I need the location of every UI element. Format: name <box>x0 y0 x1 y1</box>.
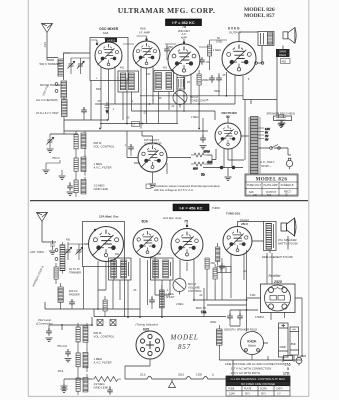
top section bus C <box>132 111 216 120</box>
cap C12 with ground <box>67 182 74 195</box>
antenna coil L1 <box>47 53 70 80</box>
svg-text:OUTPUT: OUTPUT <box>229 31 242 35</box>
bottom bus y360 <box>240 356 302 360</box>
diode load box <box>177 78 185 90</box>
bias label <box>196 307 206 310</box>
osc padder chain 857 <box>54 263 81 284</box>
svg-text:1305: 1305 <box>196 373 202 377</box>
svg-text:BIAS .05: BIAS .05 <box>196 307 206 310</box>
approx loop diagonal label <box>31 265 44 287</box>
cap C31 ground <box>107 386 113 395</box>
line voltage note L1 <box>225 362 291 366</box>
model 857 script <box>170 334 199 352</box>
model 826 table <box>245 174 298 197</box>
wire avc <box>50 131 78 134</box>
svg-text:40 TU 50: 40 TU 50 <box>69 267 80 271</box>
svg-text:2525: 2525 <box>273 280 282 284</box>
bottom bus C <box>98 290 247 305</box>
svg-text:.05: .05 <box>205 99 209 102</box>
svg-text:VOL. CONTROL: VOL. CONTROL <box>94 335 115 339</box>
shield box stubs top <box>91 81 127 124</box>
top section vertical wires T1 <box>123 92 132 120</box>
svg-text:TUNG-SOL: TUNG-SOL <box>226 212 241 216</box>
misc top labels <box>96 73 190 91</box>
cap above pot 857 <box>149 296 155 309</box>
svg-text:Rectifier: Rectifier <box>269 274 282 278</box>
svg-text:.02: .02 <box>199 294 203 297</box>
svg-text:.05: .05 <box>158 97 162 100</box>
transformer taps <box>258 128 270 142</box>
svg-text:12A8: 12A8 <box>229 393 235 396</box>
tube V4 6V6G output <box>222 42 256 76</box>
cap C30 ground <box>65 349 72 362</box>
candohm box <box>217 267 231 273</box>
svg-text:.1: .1 <box>124 144 127 147</box>
resistor R21 <box>213 264 217 285</box>
svg-text:.02: .02 <box>206 60 210 64</box>
smoothing label <box>224 328 257 332</box>
resistor chain R11 label <box>94 162 112 170</box>
svg-text:75: 75 <box>184 220 188 224</box>
resistor R5 <box>197 70 209 90</box>
speaker 857 label <box>262 238 298 259</box>
bias resistor V10 <box>216 243 220 266</box>
volume control R10 <box>74 131 86 157</box>
svg-text:OSC·MIXER: OSC·MIXER <box>99 27 119 31</box>
tone control potentiometer <box>173 89 187 108</box>
resistor 6700 <box>191 150 210 158</box>
tuning gang capacitor C2 <box>71 58 90 74</box>
svg-text:6700: 6700 <box>204 150 211 154</box>
svg-text:5: 5 <box>287 367 289 371</box>
svg-text:Δ: Δ <box>212 373 214 377</box>
pilot bus cap <box>69 299 75 309</box>
wire x204 <box>201 288 206 317</box>
svg-text:8MF: 8MF <box>291 342 297 346</box>
svg-text:2 MEG: 2 MEG <box>191 116 199 119</box>
svg-text:SCREEN·B: SCREEN·B <box>281 184 294 187</box>
chain R32 label <box>94 382 109 390</box>
svg-text:456: 456 <box>66 239 71 242</box>
cap C9 <box>216 73 222 96</box>
svg-text:.1: .1 <box>166 289 169 292</box>
IF transformer T2 <box>154 71 174 92</box>
bottom right wires <box>219 310 294 362</box>
padder label <box>40 83 62 87</box>
tube V4 label <box>228 27 242 35</box>
badge right note <box>212 206 220 210</box>
resistor R4 <box>208 40 222 62</box>
ground G3 <box>59 170 66 179</box>
svg-text:SMOOTH. SPEAKER FIELD: SMOOTH. SPEAKER FIELD <box>224 328 257 332</box>
bottom socket stub <box>125 359 150 379</box>
ground G11 <box>61 379 68 389</box>
tube V1 label <box>99 27 119 35</box>
top section bus A <box>140 95 243 97</box>
wire socket feeds <box>267 253 272 284</box>
volume control 857 chain R30 <box>76 323 88 350</box>
svg-text:ANT.: ANT. <box>43 42 47 48</box>
svg-text:500 K TRIMMER: 500 K TRIMMER <box>40 62 61 66</box>
svg-text:750 Ω: 750 Ω <box>52 156 60 160</box>
svg-text:8: 8 <box>248 78 250 81</box>
chain R31 label <box>94 357 112 365</box>
svg-text:Ballast: Ballast <box>248 344 256 348</box>
svg-text:600: 600 <box>193 167 198 171</box>
rectifier label <box>226 115 230 119</box>
svg-text:50M: 50M <box>96 88 101 91</box>
volume control 857 <box>173 279 186 295</box>
top section bus B <box>95 103 235 105</box>
sheet left border <box>27 0 29 396</box>
svg-text:5: 5 <box>117 78 119 80</box>
output transformer T3 <box>258 32 274 46</box>
tube V7 label <box>99 215 119 219</box>
cap C33 <box>227 310 233 326</box>
svg-text:APPROX LOOP Δ: APPROX LOOP Δ <box>31 265 44 287</box>
bottom bus D <box>49 317 92 330</box>
antenna trimmer label <box>40 62 61 66</box>
tube V8 6D6 <box>133 229 162 258</box>
svg-text:MODEL 857: MODEL 857 <box>244 13 275 19</box>
value label c13 <box>131 97 162 115</box>
svg-text:I·F = 456 KC: I·F = 456 KC <box>179 205 202 210</box>
trimmer screw B <box>110 320 116 326</box>
wires tube V4 to transformer <box>239 32 283 100</box>
tuning indicator label <box>136 323 159 332</box>
antenna coil 857 <box>55 242 65 274</box>
bottom table header band1 <box>226 376 290 381</box>
tube V9 75 <box>171 229 203 261</box>
resistor chain R11 <box>74 155 86 177</box>
wire rectifier feed <box>244 100 246 161</box>
power transformer T4 <box>249 117 260 174</box>
svg-text:.05: .05 <box>222 74 226 77</box>
value labels 857 coils <box>66 239 162 257</box>
ground speaker field <box>279 123 286 126</box>
svg-text:450: 450 <box>282 59 287 63</box>
tuning indicator socket 6U5 <box>136 331 164 359</box>
svg-text:600 KC PADDER: 600 KC PADDER <box>40 83 62 87</box>
bumps line resistor <box>92 377 121 382</box>
inter tube caps top <box>164 44 170 60</box>
svg-text:4.5MFD: 4.5MFD <box>255 316 264 319</box>
volume control label <box>94 141 115 149</box>
wires rectifier socket <box>247 298 303 356</box>
svg-text:SHUNT: SHUNT <box>166 296 175 299</box>
tube V3 label <box>178 25 190 39</box>
label resistor small2 <box>57 369 64 373</box>
pilot lamp label <box>35 318 53 326</box>
resistor R20 <box>205 258 215 269</box>
cap C6 <box>209 75 215 83</box>
top section vertical wires V1 <box>101 66 115 129</box>
svg-text:WATTS 570-206: WATTS 570-206 <box>278 241 298 245</box>
coil badge LA816 <box>105 38 117 43</box>
IF frequency badge model 857 <box>173 204 209 211</box>
svg-text:ALL DC READINGS. CONTROLS AT M: ALL DC READINGS. CONTROLS AT MAX. <box>230 377 286 381</box>
wire V5 left <box>127 131 153 158</box>
svg-text:7.5Δ: 7.5Δ <box>201 311 206 314</box>
svg-text:20MF: 20MF <box>280 345 287 349</box>
svg-text:.05: .05 <box>97 100 101 103</box>
svg-text:GRID LEAK: GRID LEAK <box>94 187 109 191</box>
bus cap extra <box>81 107 87 120</box>
pin labels V1 <box>96 39 119 81</box>
bottom vertical wires V9 <box>155 259 194 317</box>
heater note 1 <box>36 98 58 102</box>
svg-text:.1: .1 <box>112 108 115 111</box>
svg-text:250: 250 <box>211 261 216 265</box>
tube V10 43 output <box>223 227 252 256</box>
svg-text:HV: HV <box>265 139 269 142</box>
tube V10 label <box>226 212 249 226</box>
svg-text:17Δ: 17Δ <box>285 362 292 366</box>
top section bus E <box>64 120 208 131</box>
svg-text:2nd Det. Amp.: 2nd Det. Amp. <box>162 216 182 220</box>
note text model 826 <box>146 184 220 192</box>
electrolytic cap E1 <box>279 323 289 357</box>
top section vertical wires V3 <box>159 74 192 124</box>
tube V3 75 2nd det <box>168 44 200 76</box>
ac plug P1 <box>286 148 292 169</box>
svg-text:MODEL: MODEL <box>170 334 199 342</box>
svg-text:A.V.C. FILTER: A.V.C. FILTER <box>94 361 112 365</box>
line voltage note L2 <box>229 367 289 371</box>
grid cap V2 <box>137 36 148 41</box>
coupling wires tube tops <box>123 40 227 47</box>
label 750 <box>52 156 60 160</box>
svg-text:95 V: 95 V <box>261 393 266 396</box>
svg-text:K42K: K42K <box>247 340 257 344</box>
grid cap V3 <box>183 39 185 44</box>
svg-text:.1: .1 <box>140 49 143 52</box>
tube V9 label <box>162 216 188 224</box>
chain R31 <box>76 348 88 373</box>
resistor R33 vertical winding <box>210 320 222 351</box>
wire socket bottom text <box>255 316 264 319</box>
avc cap with ground <box>47 134 54 152</box>
speaker model 857 <box>281 218 296 236</box>
svg-text:3 V: 3 V <box>277 393 281 396</box>
svg-text:.05 Δ: .05 Δ <box>57 369 64 373</box>
rectifier tube V6 25 <box>215 123 241 149</box>
tube V2 6D6 if amp <box>133 41 160 68</box>
wire rectifier <box>228 116 249 160</box>
bottom table grid <box>226 376 290 396</box>
svg-text:17Ω: 17Ω <box>283 371 290 375</box>
svg-text:7Ω: 7Ω <box>201 173 206 177</box>
antenna 857 labels <box>30 240 56 254</box>
svg-text:.02: .02 <box>171 105 175 108</box>
rectifier label badge <box>222 111 238 115</box>
ground G2 <box>43 160 61 173</box>
ground G10 <box>61 384 68 392</box>
svg-text:SPEAKER FIELD 450Ω: SPEAKER FIELD 450Ω <box>267 112 295 116</box>
line fuse box <box>284 356 307 366</box>
volume control 857 label <box>188 282 202 293</box>
value labels bottom mid <box>133 289 203 306</box>
wires V10 to transformer <box>238 222 289 254</box>
svg-text:PLATE: PLATE <box>244 388 252 391</box>
small part label box <box>132 122 140 127</box>
svg-text:LINE VOLTAGE 105 AC AND CONNEC: LINE VOLTAGE 105 AC AND CONNECTIONS <box>225 362 285 366</box>
oscillator coil L3 <box>62 97 68 121</box>
svg-text:1 MEG: 1 MEG <box>213 48 221 52</box>
svg-text:TUBE·VOLT: TUBE·VOLT <box>247 184 261 187</box>
svg-text:25L6: 25L6 <box>240 222 248 226</box>
title ULTRAMAR MFG. CORP. <box>118 6 216 15</box>
svg-text:.1: .1 <box>131 100 134 103</box>
svg-text:600 KC: 600 KC <box>69 289 78 293</box>
value label top mid <box>120 46 173 70</box>
svg-text:L4 816: L4 816 <box>107 38 116 42</box>
model number heading <box>244 7 275 19</box>
speaker field resistor <box>274 100 292 123</box>
svg-text:TUBE: TUBE <box>228 388 235 391</box>
svg-text:ALL 6.3 HEATERS: ALL 6.3 HEATERS <box>36 98 58 102</box>
oscillator coil L2 <box>55 81 66 98</box>
svg-text:456: 456 <box>115 253 120 256</box>
svg-text:MODEL 826: MODEL 826 <box>256 177 288 182</box>
shield box tube V7 <box>83 222 125 267</box>
svg-text:TRIMMER: TRIMMER <box>69 270 81 274</box>
resistor chain R12 <box>74 177 86 197</box>
svg-text:ULTRAMAR MFG. CORP.: ULTRAMAR MFG. CORP. <box>118 6 216 15</box>
svg-text:.05: .05 <box>126 117 130 120</box>
bottom vertical wires V8 <box>113 257 155 317</box>
IF transformer T6 <box>151 258 174 280</box>
svg-text:CONTROL: CONTROL <box>188 289 202 293</box>
speaker field label <box>267 112 295 116</box>
svg-text:3: 3 <box>96 78 98 80</box>
svg-text:VOL. CONTROL: VOL. CONTROL <box>94 145 115 149</box>
svg-text:AMP.: AMP. <box>181 35 188 39</box>
grid cap V9 <box>186 223 188 227</box>
IF frequency badge model 826 <box>166 19 202 26</box>
svg-text:2D: 2D <box>187 81 190 84</box>
svg-text:.1: .1 <box>152 99 155 102</box>
cap V5 left <box>124 144 134 156</box>
tuning cap 857 b <box>68 244 88 260</box>
svg-text:GRID LEAK: GRID LEAK <box>94 386 109 390</box>
svg-text:50: 50 <box>217 36 220 40</box>
tube V2 label <box>139 27 150 35</box>
bottom bus A <box>45 302 140 309</box>
output transformer T7 <box>264 222 277 251</box>
svg-text:1ST: 1ST <box>146 73 151 76</box>
antenna model 826 <box>42 24 53 58</box>
svg-text:(Tuning Indicator): (Tuning Indicator) <box>136 323 159 327</box>
rectifier socket label <box>269 274 282 284</box>
pilot bus resistor <box>103 296 107 317</box>
speaker field badge <box>276 49 290 64</box>
section divider line <box>30 200 308 202</box>
resistor above 6U5 <box>160 285 176 317</box>
svg-text:8 MF: 8 MF <box>250 294 256 297</box>
tube V5 label <box>144 138 161 146</box>
svg-text:L7: L7 <box>133 123 136 127</box>
line voltage note L3 <box>229 371 290 375</box>
svg-text:360Ω: 360Ω <box>210 320 216 324</box>
ac only label <box>259 160 276 168</box>
svg-text:2 MEG: 2 MEG <box>176 303 184 306</box>
tube V8 label <box>142 220 148 224</box>
svg-text:TONE CON.: TONE CON. <box>190 99 206 103</box>
svg-text:FIELD: FIELD <box>279 54 286 57</box>
junction dots extra <box>61 123 303 357</box>
IF transformer T1 <box>118 71 139 92</box>
svg-text:.02: .02 <box>143 112 147 115</box>
wire x203 with cap and ground <box>200 118 207 149</box>
rectifier bus stubs <box>224 149 232 168</box>
svg-text:857: 857 <box>178 343 191 351</box>
svg-text:NO FIXED LINE VOLTAGE: NO FIXED LINE VOLTAGE <box>241 382 275 386</box>
svg-text:25L6: 25L6 <box>178 373 184 377</box>
svg-text:· 220 V AC WITH BOTH: · 220 V AC WITH BOTH <box>229 371 260 375</box>
svg-text:PADDER: PADDER <box>69 292 80 296</box>
svg-text:750 Ω Δ: 750 Ω Δ <box>57 344 67 348</box>
speaker field bus <box>243 100 277 105</box>
svg-text:12A Mod. Osc: 12A Mod. Osc <box>99 215 119 219</box>
chain R32 <box>76 373 88 395</box>
svg-text:350Ω: 350Ω <box>214 90 220 93</box>
coupling cap C5 <box>199 57 209 65</box>
bus value labels <box>97 99 209 120</box>
IF transformer T5 <box>109 258 132 280</box>
resistor chain R12 label <box>94 184 109 192</box>
tuning gang capacitor C1 <box>68 58 75 74</box>
junction dots top <box>107 95 228 125</box>
shield box tube V1 <box>90 38 128 81</box>
svg-text:25 Δ: 25 Δ <box>140 373 146 377</box>
sheet right border <box>308 0 310 396</box>
svg-text:240: 240 <box>253 194 258 197</box>
svg-text:50-60 ~: 50-60 ~ <box>261 164 272 168</box>
svg-text:95 V: 95 V <box>245 393 250 396</box>
svg-text:THIRD: THIRD <box>212 206 220 210</box>
dial lamp triangle <box>169 379 176 388</box>
wire V5 right <box>167 149 216 164</box>
bottom bus B <box>94 309 226 317</box>
svg-text:462: 462 <box>120 67 125 70</box>
svg-text:ANT. TRIM.: ANT. TRIM. <box>30 250 45 254</box>
grid cap V7 <box>94 229 96 231</box>
grid cap V1 <box>91 40 98 45</box>
svg-text:462: 462 <box>163 67 168 70</box>
bottom table header band2 <box>226 381 290 386</box>
svg-text:6A8: 6A8 <box>103 31 109 35</box>
chain R30 label <box>94 331 115 339</box>
ground V5 <box>149 172 156 187</box>
svg-text:PLATE·AMP: PLATE·AMP <box>264 184 278 187</box>
junction dots bottom <box>97 299 247 318</box>
svg-text:I.F. AMP: I.F. AMP <box>139 31 150 35</box>
wire antenna bus <box>47 53 90 60</box>
rectifier output bus <box>203 166 243 180</box>
ballast K42K <box>241 332 264 355</box>
svg-text:AT ALL 6.3 V. TEST: AT ALL 6.3 V. TEST <box>36 111 59 115</box>
svg-text:· 117 V AC WITH CONNECTION: · 117 V AC WITH CONNECTION <box>229 367 271 371</box>
antenna label <box>43 42 47 48</box>
value labels bottom v10 <box>243 270 256 297</box>
svg-text:456: 456 <box>157 253 162 256</box>
cap C34 <box>237 310 243 326</box>
osc coil 857 lower <box>58 283 80 309</box>
rectifier socket 25Z5 <box>261 284 296 313</box>
tone control label <box>190 95 206 103</box>
svg-text:SCRN: SCRN <box>260 388 267 391</box>
